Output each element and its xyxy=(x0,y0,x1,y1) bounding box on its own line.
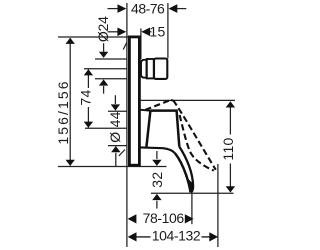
dashed lever top edge descending xyxy=(173,100,216,170)
extension line Ø44 top xyxy=(108,110,128,112)
extension line below solid lever tip (78-106 right) xyxy=(191,194,193,224)
extension line lever bottom tip (110 bottom / 78-106) xyxy=(151,192,234,194)
dimension 74 (vertical) xyxy=(78,69,94,128)
handle cap / neck bottom line xyxy=(141,147,175,153)
svg-text:32: 32 xyxy=(149,172,165,188)
lever tip filled wedge xyxy=(186,176,193,193)
extension line right of stub for 48-76 xyxy=(167,3,169,58)
lever body left/front stroke xyxy=(175,153,191,192)
connector stub middle ring xyxy=(147,59,154,78)
svg-text:104-132: 104-132 xyxy=(152,228,201,244)
extension line bottom of plate (for 156/156 and 32) xyxy=(58,166,167,168)
extension line 15-right (plate right face extended) xyxy=(140,29,142,60)
dashed lever upper-left segment (open position) xyxy=(145,100,171,110)
extension line stub top (for Ø24) xyxy=(95,58,128,60)
dashed lever bottom edge descending xyxy=(180,115,214,171)
lever body right/back stroke xyxy=(179,147,193,193)
dimension 110 (right vertical) xyxy=(220,101,236,192)
connector stub small bump xyxy=(141,60,147,78)
svg-text:78-106: 78-106 xyxy=(143,210,185,226)
dimension 15 (arrows outside) xyxy=(108,24,166,40)
handle neck top line xyxy=(141,109,151,112)
dimension Ø24 (vertical, arrows outside) xyxy=(95,16,111,94)
dimension Ø44 (vertical, arrows outside, text inside) xyxy=(107,95,123,166)
connector stub end cylinder xyxy=(154,59,167,79)
dimension 48-76 (top horizontal, arrows outside) xyxy=(108,0,187,16)
wall hatch tick bottom xyxy=(119,150,125,157)
wall / front reference extension line (vertical, full height) xyxy=(126,3,128,247)
extension line handle pivot axis (74 bottom) xyxy=(85,127,128,129)
handle cap (lever base cone) xyxy=(146,111,179,147)
extension line stub axis (for 74 top) xyxy=(84,68,128,70)
svg-text:48-76: 48-76 xyxy=(131,0,165,16)
extension line stub bottom (for Ø24) xyxy=(95,78,128,80)
extension line top of plate (for 156/156) xyxy=(58,36,129,38)
extension line lever top (110 top) xyxy=(141,99,235,101)
svg-text:Ø 44: Ø 44 xyxy=(107,111,123,143)
svg-text:74: 74 xyxy=(78,89,94,105)
dimension 156/156 (left vertical) xyxy=(55,38,75,166)
dimension 104-132 (bottom, arrows inside pointing out) xyxy=(128,228,218,244)
dimension 78-106 (bottom, arrows inside pointing out) xyxy=(128,210,194,226)
svg-text:110: 110 xyxy=(220,137,236,160)
wall hatch tick top xyxy=(123,43,127,50)
dimension 32 (vertical, arrows outside, text inline) xyxy=(149,151,165,209)
extension line below dashed lever tip (104-132 right) xyxy=(217,164,219,247)
svg-text:Ø24: Ø24 xyxy=(95,16,111,42)
dashed lever peak bend xyxy=(171,100,175,102)
svg-text:15: 15 xyxy=(149,24,165,40)
svg-text:156/156: 156/156 xyxy=(55,79,71,144)
wall plate (escutcheon, side view) xyxy=(129,37,139,165)
extension line Ø44 bottom xyxy=(108,145,127,147)
